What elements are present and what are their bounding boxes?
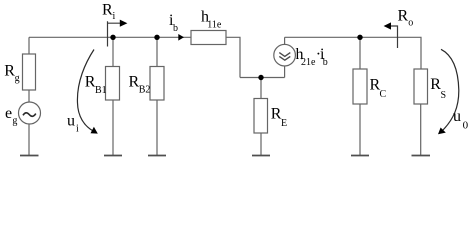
arc u0 with arrow [438, 49, 459, 134]
ground eg [20, 155, 39, 157]
ground RB1 [104, 155, 122, 157]
resistor Rg [23, 54, 36, 90]
wire left branch vertical [28, 37, 30, 54]
wire RC branch [359, 37, 361, 69]
wire eg to ground [28, 124, 30, 156]
resistor RB1 [106, 67, 120, 101]
resistor RC [353, 69, 367, 104]
resistor RE [254, 99, 268, 134]
wire RC to ground [359, 104, 361, 156]
arrow Ri [108, 20, 128, 47]
wire bottom middle horizontal [240, 77, 285, 79]
svg-text:B2: B2 [139, 84, 151, 95]
arrow Ro [384, 22, 398, 48]
svg-text:i: i [76, 123, 79, 134]
svg-text:g: g [12, 115, 17, 126]
node dot RB1 [110, 35, 115, 40]
wire Rg to eg [28, 90, 30, 102]
chevrons of current source [279, 53, 290, 61]
ground RE [252, 155, 270, 157]
node dot RE [258, 75, 263, 80]
ground RC [351, 155, 369, 157]
svg-text:0: 0 [463, 119, 469, 131]
wire RE branch [260, 78, 262, 99]
svg-text:o: o [408, 18, 413, 29]
svg-text:S: S [441, 90, 447, 101]
wire RB1 to ground [112, 100, 114, 156]
svg-text:g: g [15, 73, 20, 84]
svg-text:e: e [5, 105, 12, 122]
wire top left horizontal [29, 36, 191, 38]
source eg circle [19, 102, 41, 124]
svg-text:b: b [173, 23, 178, 34]
resistor RS [414, 69, 428, 104]
wire RB1 branch [112, 37, 114, 66]
svg-text:i: i [113, 11, 116, 22]
resistor RB2 [150, 67, 164, 101]
svg-text:b: b [323, 57, 328, 68]
svg-text:R: R [398, 7, 409, 24]
wire top right horizontal [285, 37, 421, 69]
wire RS to ground [420, 104, 422, 156]
wire source bottom [284, 66, 286, 78]
arc ui with arrow [77, 50, 97, 134]
node dot RC [357, 35, 362, 40]
arrow ib on wire [178, 34, 184, 41]
svg-text:R: R [102, 2, 113, 19]
wire h11e out to corner [226, 37, 240, 77]
svg-text:B1: B1 [95, 85, 107, 96]
resistor h11e box [191, 31, 226, 45]
svg-text:C: C [380, 89, 387, 100]
ground RS [412, 155, 431, 157]
current source circle h21e·ib [274, 44, 296, 66]
sine symbol of eg [23, 113, 36, 117]
wire RE to ground [260, 133, 262, 156]
wire source top [284, 37, 286, 44]
svg-text:11e: 11e [207, 19, 222, 30]
wire RB2 to ground [156, 100, 158, 156]
ground RB2 [148, 155, 166, 157]
wire RB2 branch [156, 37, 158, 66]
svg-text:21e: 21e [301, 57, 316, 68]
node dot RB2 [154, 35, 159, 40]
svg-text:E: E [281, 118, 287, 129]
svg-text:u: u [453, 108, 461, 125]
svg-text:u: u [67, 113, 75, 130]
